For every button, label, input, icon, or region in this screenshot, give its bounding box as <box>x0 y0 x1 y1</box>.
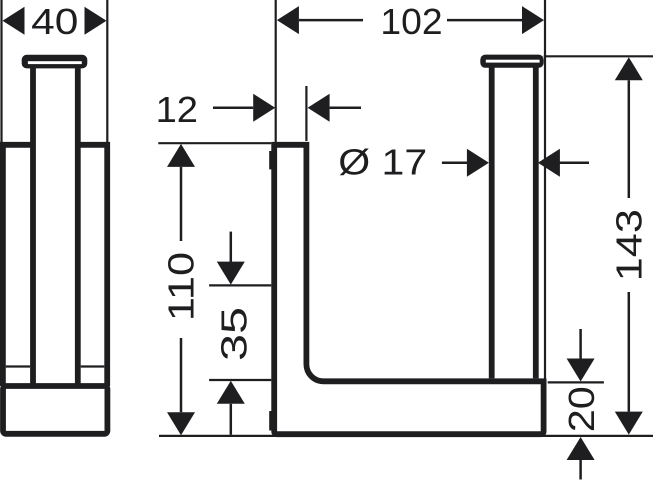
svg-text:143: 143 <box>610 209 650 281</box>
front view: upper mounting bump on left bar <box>269 151 272 169</box>
front view: U-shaped holder body <box>274 145 543 434</box>
dim 110 top arrow (points up) <box>167 144 195 167</box>
dim 143 line upper segment <box>628 80 631 198</box>
dim 102 right extension line <box>544 0 546 380</box>
dim 40 left arrow <box>3 7 25 35</box>
dim 102 left extension line <box>275 0 277 142</box>
dim 17 right arrow (points left) <box>538 149 560 177</box>
dim 110 line upper segment <box>180 167 183 241</box>
dim 17 left arrow (points right) <box>467 149 489 177</box>
dim 20 upper extension line <box>548 381 604 383</box>
dim 35 lower extension line <box>209 379 271 381</box>
dim 12 right arrow (points left) <box>308 94 330 122</box>
dim 20 lower leader <box>579 460 582 480</box>
dim 102 right arrow <box>522 6 544 34</box>
dim 102 left arrow <box>277 6 299 34</box>
front view: cap plate of right bar <box>480 55 543 68</box>
dim 110 bottom arrow (points down) <box>167 412 195 435</box>
dim 20 upper arrow (points down) <box>567 359 595 382</box>
dim 102 line left segment <box>299 19 363 22</box>
front view: cap slot highlight <box>486 60 540 63</box>
front view: right bar left wall <box>489 67 495 378</box>
side view: bottom box (bottom arm seen from side) <box>3 386 107 434</box>
svg-text:102: 102 <box>380 2 442 42</box>
side view: seam line right <box>81 365 105 367</box>
dim 12 leader line right <box>330 106 361 109</box>
dim 110 line lower segment <box>180 338 183 412</box>
dim 35 lower leader <box>230 404 233 435</box>
dim 20 lower arrow (points up) <box>567 437 595 460</box>
side view: bar right wall <box>75 67 81 385</box>
dim 143 line lower segment <box>628 292 631 412</box>
front view: lower mounting bump on left bar <box>269 411 272 431</box>
svg-text:20: 20 <box>563 386 603 432</box>
dim 110 top extension line <box>158 142 271 144</box>
dim 143 top arrow (points up) <box>615 57 643 80</box>
side view: plate top edge left segment <box>0 142 33 148</box>
side view: bar left wall <box>30 67 36 385</box>
dim 35 upper leader <box>230 232 233 262</box>
dim 12 right extension line <box>305 86 307 141</box>
side view: cap slot highlight <box>28 61 82 64</box>
side view: extension line right of dim 40 <box>106 0 108 142</box>
dim 17 leader line right <box>559 161 589 164</box>
side view: seam line left <box>6 365 30 367</box>
baseline extension line <box>159 435 653 437</box>
side view: plate top edge right segment <box>78 142 110 148</box>
side view: wall plate right wall <box>104 142 110 386</box>
dim 12 left arrow (points right) <box>253 94 275 122</box>
svg-text:110: 110 <box>162 252 202 321</box>
dim 17 leader line left <box>442 161 468 164</box>
dim 143 top extension line <box>544 55 653 57</box>
svg-text:12: 12 <box>156 89 198 130</box>
svg-text:Ø 17: Ø 17 <box>338 143 427 183</box>
side view: cap plate (top of bar) <box>22 55 88 69</box>
side view: extension line left of dim 40 <box>0 0 2 142</box>
svg-text:40: 40 <box>31 2 78 42</box>
dim 35 upper arrow (points down) <box>217 262 245 285</box>
svg-text:35: 35 <box>214 307 254 361</box>
dim 40 right arrow <box>85 7 107 35</box>
dim 143 bottom arrow (points down) <box>615 412 643 435</box>
dim 35 lower arrow (points up) <box>217 381 245 404</box>
dim 12 leader line left <box>213 106 253 109</box>
side view: wall plate left wall <box>0 142 6 386</box>
dim 102 line right segment <box>447 19 522 22</box>
dim 20 upper leader <box>579 329 582 360</box>
front view: right bar right wall <box>533 67 539 378</box>
dim 35 upper extension line <box>209 284 271 286</box>
